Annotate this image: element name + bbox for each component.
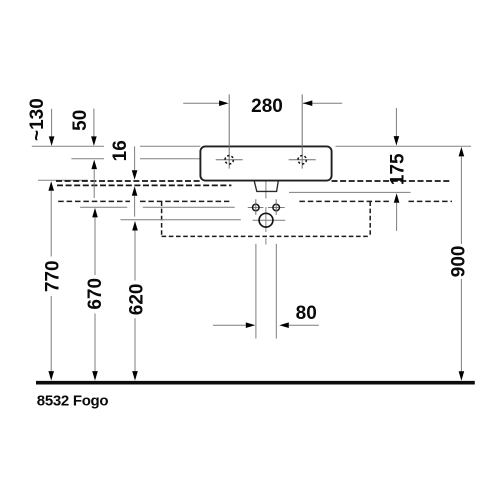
dashed cabinet rectangle xyxy=(162,201,371,236)
dimension 80 extension lines xyxy=(256,244,276,339)
dimension 280 xyxy=(183,96,342,117)
dimension 50 xyxy=(70,109,97,199)
side reference line (175 bottom, right) xyxy=(289,191,411,193)
svg-text:8532 Fogo: 8532 Fogo xyxy=(37,392,109,409)
drain hole circle xyxy=(259,213,273,227)
fixing hole right xyxy=(273,199,280,215)
svg-text:80: 80 xyxy=(296,303,317,324)
dimension 80 xyxy=(213,303,319,328)
dimension 670 xyxy=(85,208,106,381)
svg-text:620: 620 xyxy=(126,284,147,316)
dimension ~130 xyxy=(27,98,55,146)
svg-text:900: 900 xyxy=(448,246,469,278)
svg-text:175: 175 xyxy=(387,153,408,185)
faucet hole dashed circle right xyxy=(298,156,306,164)
faucet hole dashed circle left xyxy=(225,156,233,164)
faucet hole crosshair right xyxy=(289,94,316,168)
dimension 175 xyxy=(387,108,408,231)
hidden edge dashed line 16 below xyxy=(57,184,231,186)
drain centerline horizontal xyxy=(121,219,286,221)
svg-text:770: 770 xyxy=(43,260,64,292)
dimension 620 xyxy=(126,221,147,381)
svg-text:~130: ~130 xyxy=(27,98,48,141)
svg-text:280: 280 xyxy=(251,96,283,117)
drain trap outline xyxy=(254,182,278,192)
dimension 900 xyxy=(448,147,469,381)
countertop bottom line (50 below top) xyxy=(71,158,200,160)
basin bottom reference line (left stub for 770/~130) xyxy=(38,179,88,181)
hidden edge dashed line (basin underside level) xyxy=(56,180,451,182)
dimension 770 xyxy=(43,181,64,380)
svg-text:16: 16 xyxy=(110,140,131,161)
fixing hole left xyxy=(253,199,260,215)
hidden shelf dashed line xyxy=(58,200,452,202)
svg-text:670: 670 xyxy=(85,278,106,310)
floor line xyxy=(36,381,475,385)
dimension 16 xyxy=(110,140,138,216)
vertical centre axis xyxy=(265,169,267,245)
fixing bolt centerline (left) xyxy=(80,206,285,208)
svg-text:50: 50 xyxy=(70,110,91,131)
countertop top line (left + right of basin) xyxy=(32,145,471,147)
washbasin outline xyxy=(200,146,331,180)
faucet hole crosshair left xyxy=(216,94,243,168)
